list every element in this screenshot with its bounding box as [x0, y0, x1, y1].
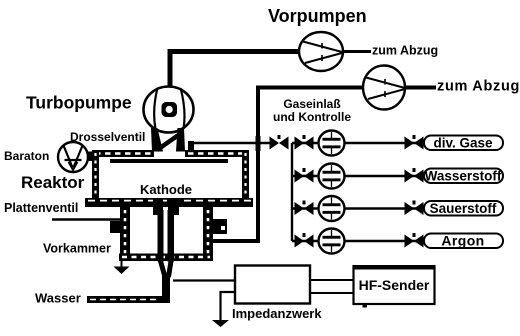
baraton stub to chamber: [87, 152, 94, 162]
svg-text:Vorpumpen: Vorpumpen: [268, 6, 367, 26]
pipe stub into chamber: [188, 141, 194, 155]
wire pump2 inlet and drop line to vorkammer: [211, 88, 363, 242]
gas branch 3: Sauerstoff: [292, 196, 503, 221]
wire pump2 to zum Abzug 2: [404, 86, 436, 90]
channel impedance to HF: [310, 279, 354, 281]
vorpumpe P2: [363, 66, 405, 110]
svg-text:Reaktor: Reaktor: [21, 173, 85, 192]
chamber bottom wall: [85, 198, 253, 207]
turbopump U1: [144, 87, 194, 133]
svg-text:Gaseinlaß: Gaseinlaß: [283, 97, 340, 111]
svg-text:Plattenventil: Plattenventil: [4, 201, 78, 215]
impedance matching box: [235, 266, 310, 304]
svg-text:HF-Sender: HF-Sender: [359, 277, 430, 293]
plattenventil pointer line: [52, 218, 121, 220]
baraton gauge: [58, 142, 88, 172]
gas branch 1: div. Gase: [292, 131, 503, 156]
gas branch 4: Argon: [292, 229, 503, 254]
ground below vorkammer: [114, 261, 130, 274]
tube taper: [161, 261, 166, 277]
svg-text:Drosselventil: Drosselventil: [70, 130, 145, 144]
drosselventil housing right: [176, 128, 185, 152]
wasser pipe: [87, 296, 165, 303]
cathode electrode bar: [110, 159, 228, 163]
svg-text:Baraton: Baraton: [4, 149, 49, 163]
svg-text:Vorkammer: Vorkammer: [43, 242, 111, 256]
svg-text:Sauerstoff: Sauerstoff: [430, 201, 497, 216]
ground at impedance box: [212, 292, 235, 327]
svg-text:Impedanzwerk: Impedanzwerk: [232, 306, 322, 321]
vorkammer bottom wall: [119, 254, 213, 262]
wire gas feed into reactor top: [191, 142, 271, 144]
svg-text:Wasser: Wasser: [35, 291, 81, 306]
chamber right wall: [242, 150, 249, 199]
svg-text:div. Gase: div. Gase: [433, 136, 493, 151]
svg-text:Wasserstoff: Wasserstoff: [425, 169, 502, 184]
chamber top wall left: [92, 150, 154, 157]
substrate tube walls: [158, 210, 164, 262]
wire turbopump to vorpumpe 1: [170, 52, 300, 89]
junction fitting: [256, 136, 261, 151]
svg-text:Turbopumpe: Turbopumpe: [26, 93, 132, 113]
gas inlet flange right: [213, 219, 227, 234]
drosselventil flap: [157, 134, 180, 150]
chamber left wall: [92, 150, 99, 199]
svg-text:Kathode: Kathode: [140, 182, 192, 197]
svg-text:Argon: Argon: [441, 233, 484, 249]
tube lower pipe: [162, 275, 170, 303]
gas branch 2: Wasserstoff: [292, 164, 503, 189]
wire pump1 to zum Abzug: [343, 50, 371, 53]
manifold line: [291, 143, 293, 241]
plattenventil flange left: [110, 221, 122, 233]
drosselventil housing left: [151, 128, 163, 152]
vorkammer right wall: [203, 207, 213, 261]
wire tube to impedance box: [173, 279, 235, 281]
svg-text:zum Abzug: zum Abzug: [372, 44, 438, 58]
vorpumpe P1: [299, 32, 343, 71]
vorkammer left wall: [120, 207, 130, 261]
HF-Sender box: [354, 267, 435, 305]
svg-text:und Kontrolle: und Kontrolle: [273, 110, 351, 124]
svg-text:zum Abzug: zum Abzug: [437, 79, 520, 95]
valve V1: [270, 135, 289, 150]
chamber top wall right: [185, 150, 249, 157]
substrate tube top blocks: [153, 199, 163, 215]
